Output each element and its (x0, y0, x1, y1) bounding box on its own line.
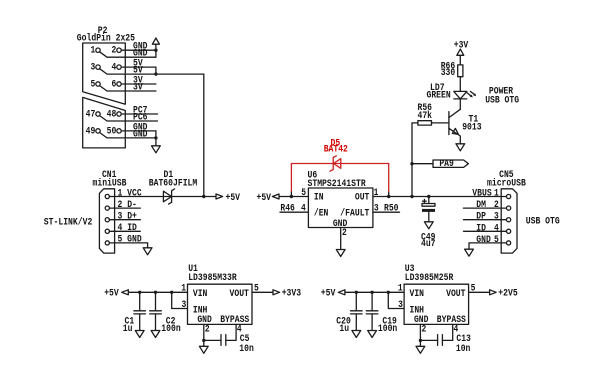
wire U6 OUT rail to CN5 VBUS (373, 196, 507, 198)
wire INH loop (388, 292, 404, 308)
connector CN5 microUSB (487, 169, 526, 253)
ground symbol C49 (424, 222, 433, 229)
wire CN5 GND (469, 243, 506, 249)
wire pin6 3V (121, 83, 156, 85)
pin label GND 5 (476, 234, 499, 245)
svg-text:BAT60JFILM: BAT60JFILM (149, 177, 198, 188)
svg-text:1: 1 (398, 283, 403, 294)
ground symbol CN1 (143, 248, 152, 255)
junction PA9 tap (410, 162, 413, 165)
wire pin3 5V diagonal (100, 69, 204, 74)
wire VOUT (469, 291, 489, 293)
svg-text:3V: 3V (133, 81, 143, 92)
wire 5V vertical to +5V rail (203, 74, 205, 196)
junction INH feed (387, 291, 390, 294)
svg-text:IN: IN (314, 192, 324, 203)
svg-text:+3V: +3V (454, 39, 469, 50)
pin label DM 2 (476, 199, 499, 210)
ground symbol C20 (352, 331, 361, 338)
svg-text:BYPASS: BYPASS (437, 314, 466, 325)
svg-text:LD3985M25R: LD3985M25R (405, 272, 454, 283)
wire CN1 D+ (109, 219, 140, 221)
junction GND/BYPASS (419, 339, 422, 342)
power port +3V (454, 39, 469, 55)
wire CN1 VCC (109, 196, 163, 198)
svg-text:3: 3 (494, 211, 499, 222)
junction +5V / 5V vertical (202, 195, 205, 198)
connector P2 GoldPin 2x25 (77, 25, 135, 148)
svg-text:OUT: OUT (355, 192, 370, 203)
pin label DP 3 (476, 211, 499, 222)
svg-text:10n: 10n (239, 343, 254, 354)
svg-text:1: 1 (181, 283, 186, 294)
wire +5V rail to U3 VIN (345, 291, 404, 293)
wire pin50 GND (121, 130, 156, 132)
wire red bypass left vertical (290, 164, 292, 193)
svg-text:1: 1 (91, 45, 96, 56)
transistor T1 9013 (449, 109, 482, 144)
svg-text:+3V3: +3V3 (282, 288, 301, 299)
svg-text:PA9: PA9 (439, 158, 454, 169)
wire /FAULT pin 3 with net label R50 (373, 211, 400, 213)
svg-text:330: 330 (441, 67, 456, 78)
svg-text:DP: DP (476, 211, 486, 222)
svg-text:USB OTG: USB OTG (526, 215, 560, 226)
power port +3V3 (273, 288, 301, 299)
wire GND pin 2 down (203, 324, 205, 340)
wire GND pin 2 down (419, 324, 421, 340)
wire pin2 GND (121, 49, 156, 51)
svg-text:47: 47 (86, 109, 96, 120)
wire GND to ground (419, 340, 421, 346)
svg-text:47k: 47k (418, 110, 433, 121)
wire /EN pin 4 with net label R46 (280, 211, 308, 213)
wire ID stub (464, 230, 507, 232)
junction red right on OUT rail (387, 195, 390, 198)
svg-text:3: 3 (182, 299, 187, 310)
ground symbol bottom of P2 (152, 131, 161, 153)
svg-text:10n: 10n (456, 343, 471, 354)
svg-text:100n: 100n (161, 323, 180, 334)
junction red left on +5V rail (290, 195, 293, 198)
svg-text:3: 3 (91, 62, 96, 73)
svg-text:GoldPin 2x25: GoldPin 2x25 (77, 32, 135, 43)
svg-text:3: 3 (398, 299, 403, 310)
ground symbol T1 emitter (456, 144, 465, 151)
regulator U3 LD3985M25R (404, 263, 469, 325)
wire R66 to LD7 (459, 77, 461, 92)
wire INH loop (172, 292, 188, 308)
junction C49 on OUT rail (427, 195, 430, 198)
svg-text:LD3985M33R: LD3985M33R (188, 272, 237, 283)
net flag PA9 (433, 158, 468, 169)
svg-text:4: 4 (237, 324, 242, 335)
svg-text:VOUT: VOUT (230, 288, 249, 299)
wire pin5 3V diagonal (100, 86, 156, 91)
svg-text:6: 6 (112, 79, 117, 90)
svg-text:5: 5 (471, 283, 476, 294)
wire pin48 PC7 (121, 113, 157, 115)
svg-text:USB OTG: USB OTG (485, 94, 519, 105)
junction GND/BYPASS (202, 339, 205, 342)
svg-text:4u7: 4u7 (421, 238, 436, 249)
svg-text:/EN: /EN (314, 207, 329, 218)
svg-text:49: 49 (86, 125, 96, 136)
wire GND to ground (203, 340, 205, 346)
svg-text:VBUS: VBUS (472, 188, 491, 199)
capacitor C49 4u7 polarized (421, 197, 436, 250)
svg-text:2: 2 (205, 324, 210, 335)
svg-text:1u: 1u (123, 323, 133, 334)
svg-text:+2V5: +2V5 (498, 288, 517, 299)
svg-text:+5V: +5V (226, 192, 241, 203)
junction INH feed (170, 291, 173, 294)
svg-text:/FAULT: /FAULT (340, 207, 369, 218)
svg-text:R46: R46 (280, 203, 295, 214)
wire pin47 PC6 diagonal (100, 116, 158, 121)
svg-text:R50: R50 (384, 203, 399, 214)
wire +5V rail to U1 VIN (129, 291, 188, 293)
power port +5V (right arrow) (216, 192, 240, 203)
ground symbol U6 (336, 250, 345, 257)
svg-text:4: 4 (454, 324, 459, 335)
svg-text:48: 48 (107, 109, 117, 120)
svg-text:9013: 9013 (462, 122, 481, 133)
capacitor C19 100n (366, 292, 397, 334)
capacitor C2 100n (150, 292, 181, 334)
wire D1 cathode to +5V (163, 196, 215, 198)
wire LED to T1 collector (459, 99, 461, 109)
svg-text:GND: GND (133, 128, 148, 139)
junction C20 (355, 291, 358, 294)
diode D5 BAT42 (red) (324, 137, 348, 171)
svg-text:VIN: VIN (193, 288, 208, 299)
pin label ID 4 (476, 222, 499, 233)
resistor R56 47k (418, 102, 433, 125)
wire +3V to R66 (459, 55, 461, 65)
svg-text:VIN: VIN (410, 288, 425, 299)
capacitor C1 1u (123, 292, 146, 334)
svg-text:2: 2 (112, 45, 117, 56)
wire CN1 D- (109, 207, 140, 209)
wire pin49 GND diagonal (100, 133, 156, 138)
svg-text:BAT42: BAT42 (324, 144, 348, 155)
svg-text:2: 2 (422, 324, 427, 335)
junction C1 (138, 291, 141, 294)
svg-text:2: 2 (494, 199, 499, 210)
wire CN1 ID (109, 230, 140, 232)
power port +2V5 (490, 288, 518, 299)
wire +5V to U6 IN (280, 196, 309, 198)
wire to PA9 flag (412, 163, 433, 165)
ground symbol U3 (416, 346, 425, 353)
svg-text:DM: DM (476, 199, 486, 210)
LED LD7 GREEN (427, 82, 477, 101)
label POWER USB OTG (485, 86, 519, 106)
op-amp U6 STMPS2141STR power switch (301, 170, 379, 229)
svg-text:4: 4 (494, 222, 499, 233)
wire VOUT (252, 291, 272, 293)
wire DM stub (464, 207, 507, 209)
wire pin4 5V (121, 67, 156, 74)
svg-text:GND: GND (476, 234, 491, 245)
svg-text:+5V: +5V (104, 288, 119, 299)
svg-text:1u: 1u (339, 323, 349, 334)
ground symbol CN5 (465, 249, 474, 256)
capacitor C5 10n bypass (204, 324, 254, 353)
svg-text:5: 5 (301, 187, 306, 198)
svg-text:ID: ID (476, 222, 486, 233)
svg-text:2: 2 (342, 227, 347, 238)
wire red bypass top (291, 163, 388, 165)
svg-text:4: 4 (112, 62, 117, 73)
ground symbol C19 (368, 331, 377, 338)
svg-text:50: 50 (107, 125, 117, 136)
svg-text:GREEN: GREEN (427, 89, 451, 100)
svg-text:microUSB: microUSB (487, 177, 526, 188)
svg-text:ST-LINK/V2: ST-LINK/V2 (44, 216, 93, 227)
svg-text:VOUT: VOUT (446, 288, 465, 299)
wire T1 base to R56 (432, 122, 449, 124)
svg-text:1: 1 (494, 188, 499, 199)
regulator U1 LD3985M33R (188, 263, 253, 325)
pin label VBUS 1 (472, 188, 499, 199)
svg-text:5: 5 (254, 283, 259, 294)
junction C19 (370, 291, 373, 294)
diode D1 BAT60JFILM (149, 169, 198, 204)
power port +5V (left arrow into U6) (257, 192, 280, 203)
junction 5V (154, 72, 157, 75)
resistor R66 330 (441, 61, 463, 78)
power symbol top of P2 (152, 38, 159, 57)
wire red bypass right vertical (388, 164, 390, 193)
junction C2 (154, 291, 157, 294)
ground symbol C2 (151, 331, 160, 338)
svg-text:5: 5 (494, 234, 499, 245)
svg-text:BYPASS: BYPASS (220, 314, 249, 325)
capacitor C20 1u (336, 292, 362, 334)
svg-text:+5V: +5V (321, 288, 336, 299)
power port +5V at U3 (321, 288, 345, 299)
svg-text:100n: 100n (378, 323, 397, 334)
svg-text:5: 5 (91, 79, 96, 90)
ground symbol U1 (199, 346, 208, 353)
junction R56 vertical on OUT rail (410, 195, 413, 198)
wire DP stub (464, 219, 507, 221)
capacitor C13 10n bypass (420, 324, 471, 353)
svg-text:+5V: +5V (257, 192, 272, 203)
ground symbol C1 (135, 331, 144, 338)
wire CN1 GND (109, 243, 147, 248)
wire R56 left + vertical to OUT rail (412, 123, 418, 197)
connector CN1 miniUSB (93, 169, 142, 253)
power port +5V at U1 (104, 288, 128, 299)
wire U6 GND pin 2 (340, 228, 342, 250)
wire pin1 GND diagonal (100, 52, 156, 57)
